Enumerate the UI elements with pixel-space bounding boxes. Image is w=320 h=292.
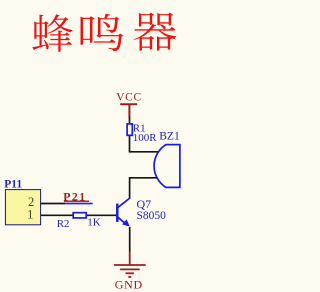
wire R1 pin 2 down then right to buzzer pin 1	[130, 136, 159, 152]
connector P11 body	[5, 190, 40, 225]
svg-text:BZ1: BZ1	[159, 129, 180, 142]
wire Q7 emitter to GND	[129, 227, 131, 252]
svg-text:1: 1	[27, 208, 33, 222]
svg-text:1K: 1K	[87, 216, 101, 228]
transistor Q7 emitter arrow	[122, 219, 130, 226]
wire VCC to R1 pin 1	[129, 117, 131, 124]
svg-text:R2: R2	[57, 218, 69, 230]
transistor Q7 emitter lead	[118, 217, 128, 225]
transistor Q7 base bar	[116, 204, 119, 222]
svg-text:S8050: S8050	[137, 210, 167, 222]
wire buzzer pin 2 left then down to Q7 collector	[130, 178, 158, 199]
wire P11 pin 1 to R2 to Q7 base	[41, 214, 116, 216]
title text 蜂鸣器 (buzzer)	[32, 13, 176, 52]
svg-text:GND: GND	[115, 278, 143, 292]
power symbol VCC	[116, 92, 142, 117]
transistor Q7 collector lead	[118, 198, 130, 207]
svg-text:Q7: Q7	[137, 197, 152, 211]
resistor R1	[127, 124, 132, 135]
resistor R2	[73, 213, 86, 218]
buzzer BZ1	[154, 145, 180, 188]
svg-text:100R: 100R	[133, 132, 158, 144]
net label P21 underline	[64, 200, 89, 202]
svg-text:P11: P11	[4, 179, 22, 191]
svg-text:P21: P21	[63, 189, 86, 203]
wire net P21	[65, 203, 92, 205]
pin 2 lead of P11	[41, 203, 65, 205]
ground symbol GND	[114, 251, 146, 277]
svg-text:VCC: VCC	[116, 92, 142, 104]
